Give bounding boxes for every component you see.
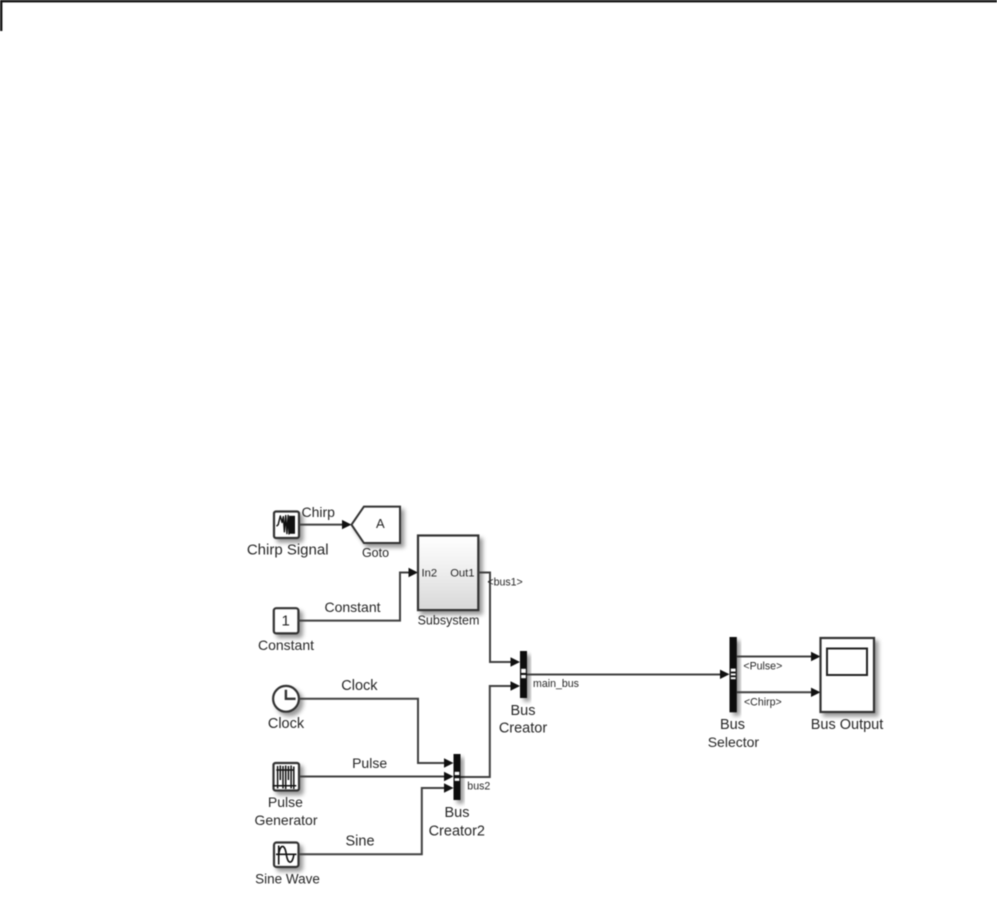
svg-text:<Pulse>: <Pulse> xyxy=(743,661,782,673)
svg-text:Constant: Constant xyxy=(324,599,380,615)
window frame top edge xyxy=(0,0,997,2)
pulse generator block Pulse Generator xyxy=(274,763,300,791)
svg-text:Chirp Signal: Chirp Signal xyxy=(247,542,329,559)
sine wave block Sine Wave xyxy=(274,843,299,868)
subsystem block Subsystem xyxy=(418,536,478,611)
sine icon axes xyxy=(278,846,280,865)
wire Bus Selector out2 -> Bus Output xyxy=(737,691,813,693)
svg-text:Bus: Bus xyxy=(511,703,536,719)
svg-text:bus2: bus2 xyxy=(467,781,490,793)
svg-text:Pulse: Pulse xyxy=(268,794,303,810)
wire Bus Creator2 out -> Bus Creator in2 xyxy=(461,686,513,777)
wire Subsystem Out1 -> Bus Creator in1 xyxy=(478,573,512,663)
bus creator block Bus Creator xyxy=(520,651,527,698)
svg-text:Subsystem: Subsystem xyxy=(418,614,480,628)
wire Sine Wave -> Bus Creator2 in3 xyxy=(299,788,446,854)
bus creator block Bus Creator2 xyxy=(454,754,461,800)
svg-text:Bus: Bus xyxy=(720,717,745,733)
svg-text:Chirp: Chirp xyxy=(302,504,336,520)
chirp icon xyxy=(277,516,289,535)
svg-text:<bus1>: <bus1> xyxy=(487,576,522,588)
svg-text:1: 1 xyxy=(282,612,290,629)
svg-text:<Chirp>: <Chirp> xyxy=(744,697,782,709)
chirp signal source block Chirp Signal xyxy=(274,512,299,539)
wire Constant -> Subsystem In2 xyxy=(298,573,410,621)
wire Pulse Generator -> Bus Creator2 in2 xyxy=(299,776,445,778)
sine icon curve xyxy=(279,846,294,862)
wire Clock -> Bus Creator2 in1 xyxy=(299,699,445,763)
window frame left edge fragment xyxy=(0,0,2,31)
wire Chirp Signal -> Goto xyxy=(299,524,344,526)
svg-text:Sine: Sine xyxy=(345,834,374,850)
svg-text:A: A xyxy=(376,516,385,531)
bus selector block Bus Selector xyxy=(730,637,737,712)
svg-text:Generator: Generator xyxy=(254,812,317,828)
svg-text:Bus: Bus xyxy=(445,805,470,821)
svg-text:Clock: Clock xyxy=(268,716,305,732)
wire Bus Creator -> Bus Selector xyxy=(527,674,722,676)
svg-text:Goto: Goto xyxy=(362,546,389,560)
wire Bus Selector out1 -> Bus Output xyxy=(737,656,813,658)
pulse train icon xyxy=(273,766,297,790)
svg-text:Pulse: Pulse xyxy=(352,755,387,771)
clock hands xyxy=(286,690,296,699)
svg-text:main_bus: main_bus xyxy=(533,678,579,690)
svg-text:Bus Output: Bus Output xyxy=(811,717,884,733)
svg-text:Selector: Selector xyxy=(708,734,760,750)
clock block Clock xyxy=(273,686,299,712)
constant block Constant value 1 xyxy=(274,608,299,633)
svg-text:Out1: Out1 xyxy=(450,568,474,580)
goto tag block Goto (A) xyxy=(352,507,401,543)
svg-text:Creator2: Creator2 xyxy=(429,823,485,839)
svg-text:Constant: Constant xyxy=(258,637,314,653)
scope block Bus Output xyxy=(821,638,875,712)
svg-text:Sine Wave: Sine Wave xyxy=(255,872,320,887)
svg-text:Clock: Clock xyxy=(341,678,378,694)
svg-text:In2: In2 xyxy=(422,568,438,580)
scope screen xyxy=(827,649,867,676)
svg-text:Creator: Creator xyxy=(499,720,548,736)
